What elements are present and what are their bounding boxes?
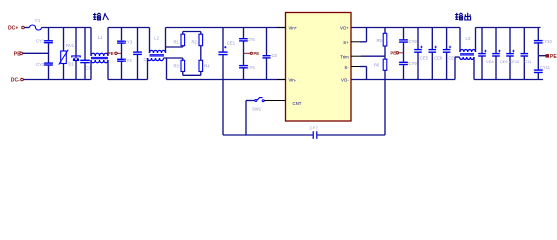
- pin S+: [351, 41, 367, 43]
- fuse F1: [30, 18, 42, 30]
- capacitor CY10: [534, 28, 553, 56]
- TVS diode D1: [69, 28, 81, 80]
- svg-text:R3: R3: [174, 64, 180, 69]
- wire output riser: [384, 80, 386, 136]
- svg-text:PE: PE: [108, 51, 114, 56]
- capacitor CY8: [399, 28, 417, 53]
- svg-text:CY8: CY8: [409, 39, 418, 44]
- svg-text:L3: L3: [466, 36, 471, 41]
- svg-text:CY6: CY6: [247, 65, 256, 70]
- port PE mid-left: [108, 51, 122, 56]
- svg-text:S-: S-: [344, 65, 349, 70]
- svg-text:CY10: CY10: [541, 39, 552, 44]
- wire DC+ to fuse: [24, 27, 29, 29]
- svg-text:CE8: CE8: [486, 59, 495, 64]
- resistor R1: [174, 32, 201, 48]
- svg-text:PE: PE: [550, 54, 557, 60]
- capacitor CE9: [492, 28, 508, 80]
- svg-text:D1: D1: [69, 62, 75, 67]
- capacitor C3: [80, 28, 91, 80]
- resistor R3: [174, 58, 201, 75]
- label input 输入: [93, 13, 109, 20]
- svg-text:SW1: SW1: [252, 107, 262, 112]
- wire SW1 to CNT pin: [264, 100, 285, 102]
- wire CE1 column down: [222, 80, 224, 136]
- svg-text:CE6: CE6: [434, 56, 443, 61]
- svg-text:R2: R2: [192, 39, 198, 44]
- pin Trim: [351, 55, 361, 57]
- pin VO+: [351, 27, 361, 29]
- wire bottom rail to IC: [167, 79, 286, 81]
- svg-text:CE9: CE9: [500, 59, 509, 64]
- wire top rail output: [351, 27, 541, 29]
- svg-text:CY3: CY3: [124, 39, 133, 44]
- common-mode choke L2: [148, 28, 166, 80]
- varistor RV1: [59, 28, 75, 80]
- svg-text:Trim: Trim: [340, 54, 349, 59]
- capacitor CY6: [239, 53, 255, 79]
- capacitor CY5: [239, 28, 255, 54]
- port PE (input): [14, 51, 23, 57]
- resistor R2: [192, 32, 203, 61]
- capacitor C5: [263, 28, 278, 80]
- svg-text:VO-: VO-: [341, 78, 349, 83]
- svg-text:DC+: DC+: [8, 26, 18, 32]
- svg-text:S+: S+: [343, 40, 349, 45]
- svg-text:PE: PE: [253, 51, 259, 56]
- common-mode choke L1: [91, 28, 108, 80]
- svg-text:Vin-: Vin-: [289, 78, 297, 83]
- capacitor CY2: [36, 53, 53, 79]
- svg-text:RV1: RV1: [66, 43, 75, 48]
- svg-text:CNT: CNT: [293, 101, 302, 106]
- capacitor CY4: [117, 53, 132, 79]
- capacitor CE5: [414, 28, 428, 80]
- switch SW1: [246, 98, 264, 112]
- svg-text:C4: C4: [144, 57, 150, 62]
- svg-text:F1: F1: [35, 18, 41, 23]
- pin VO-: [351, 79, 361, 81]
- wire bottom rail input: [23, 79, 147, 81]
- wire S+ tie: [366, 28, 368, 42]
- op-amp U1 (DC-DC module): [286, 13, 352, 122]
- port DC-: [11, 78, 24, 84]
- pin Vin+: [277, 27, 286, 29]
- svg-text:CE1: CE1: [227, 41, 236, 46]
- port PE output: [538, 54, 557, 60]
- port DC+: [8, 26, 24, 32]
- wire node after L2: [164, 47, 183, 80]
- port PE mid: [244, 51, 260, 56]
- svg-text:CY5: CY5: [247, 37, 256, 42]
- svg-text:C5: C5: [272, 53, 278, 58]
- capacitor CE6: [429, 28, 443, 80]
- svg-text:L1: L1: [98, 35, 103, 40]
- svg-text:R1: R1: [174, 39, 180, 44]
- port PE mid-right: [390, 51, 403, 56]
- svg-text:CY4: CY4: [124, 58, 133, 63]
- resistor R4: [199, 60, 210, 75]
- svg-text:R6: R6: [374, 63, 380, 68]
- wire SW1 riser: [245, 101, 247, 136]
- capacitor CY1: [36, 28, 53, 54]
- wire top rail input: [42, 27, 150, 29]
- capacitor CY9: [399, 53, 417, 80]
- svg-text:CY11: CY11: [540, 65, 551, 70]
- capacitor CY7: [310, 125, 319, 139]
- svg-text:CY2: CY2: [36, 62, 45, 67]
- svg-text:CY1: CY1: [36, 39, 45, 44]
- pin S-: [351, 66, 367, 68]
- svg-text:PE: PE: [390, 51, 396, 56]
- common-mode choke L3: [455, 28, 476, 80]
- svg-text:L2: L2: [154, 35, 159, 40]
- wire bottom link: [223, 134, 385, 136]
- capacitor CE8: [478, 28, 494, 80]
- capacitor CE7: [443, 28, 457, 80]
- capacitor CY11: [534, 56, 551, 80]
- label output 输出: [455, 13, 471, 20]
- resistor R6: [374, 56, 387, 79]
- svg-text:R4: R4: [204, 64, 210, 69]
- svg-text:CY7: CY7: [310, 125, 319, 130]
- capacitor CE10: [506, 28, 520, 80]
- wire S- tie: [366, 67, 368, 80]
- svg-text:Vin+: Vin+: [289, 26, 298, 31]
- svg-text:R5: R5: [377, 38, 383, 43]
- pin Vin-: [277, 79, 286, 81]
- svg-text:CE5: CE5: [420, 56, 429, 61]
- wire bottom rail output: [351, 79, 543, 81]
- capacitor CE1: [218, 28, 235, 80]
- svg-text:DC-: DC-: [11, 78, 20, 84]
- wire PE rail: [23, 52, 49, 54]
- svg-text:CE10: CE10: [509, 59, 520, 64]
- svg-text:C11: C11: [524, 59, 532, 64]
- wire top rail to IC: [166, 27, 286, 29]
- svg-text:VO+: VO+: [340, 26, 349, 31]
- svg-text:CY9: CY9: [409, 61, 418, 66]
- resistor R5: [361, 28, 387, 57]
- capacitor C11: [521, 28, 533, 80]
- capacitor C4: [133, 28, 149, 80]
- capacitor CY3: [117, 28, 133, 54]
